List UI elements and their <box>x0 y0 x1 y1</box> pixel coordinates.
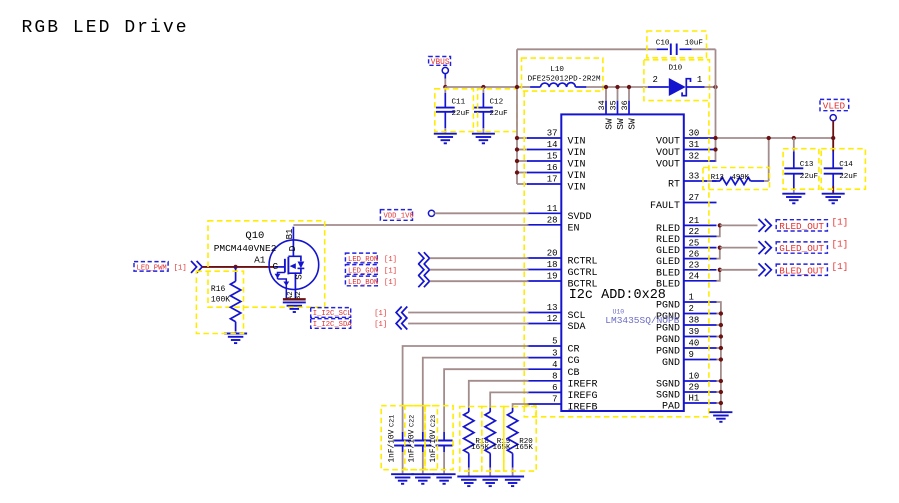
wire pin 3 to cap at x=422.8 <box>423 358 529 432</box>
yellow box C13 <box>783 149 819 190</box>
pin 34 SW (top) <box>597 85 615 130</box>
svg-text:C14: C14 <box>839 161 853 169</box>
svg-text:VOUT: VOUT <box>656 137 680 148</box>
wire VBUS drop <box>444 73 446 87</box>
capacitor C23 1nF/10V <box>430 415 453 474</box>
net label VDD_1V8 <box>380 210 434 221</box>
svg-text:VIN: VIN <box>568 160 586 171</box>
node VIN junction pin 15 <box>515 159 519 163</box>
pin 35 SW (top) <box>608 85 626 130</box>
pin 37 VIN (left) <box>527 129 586 148</box>
svg-text:C22: C22 <box>409 415 417 427</box>
yellow box R13 <box>703 168 770 190</box>
wire VIN tap pin 37 <box>517 137 529 139</box>
resistor R19 165K <box>485 408 511 477</box>
svg-text:18: 18 <box>547 260 558 270</box>
node VLED junction <box>831 136 835 140</box>
svg-text:RLED_OUT: RLED_OUT <box>779 221 824 232</box>
net label RLED_OUT <box>776 216 848 232</box>
svg-text:30: 30 <box>689 129 700 139</box>
svg-text:[1]: [1] <box>374 310 387 318</box>
pin 33 RT (right) <box>668 172 717 191</box>
wire pin 6 to resistor at x=490.2 <box>490 392 528 408</box>
node VIN rail junction <box>515 85 519 89</box>
svg-text:LED_GON: LED_GON <box>348 267 378 275</box>
pin 15 VIN (left) <box>527 152 586 171</box>
port chevron BLED_OUT <box>759 263 772 276</box>
svg-text:22uF: 22uF <box>800 173 819 181</box>
svg-text:33: 33 <box>689 172 700 182</box>
pin 5 CR (left) <box>527 337 580 356</box>
wire LED_GON to pin 18 <box>430 269 529 271</box>
pin 32 VOUT (right) <box>656 152 717 171</box>
ground for Q10 source <box>283 302 306 312</box>
svg-text:13: 13 <box>547 303 558 313</box>
svg-text:SW: SW <box>615 118 626 130</box>
svg-text:[1]: [1] <box>384 267 397 275</box>
pin 36 SW (top) <box>620 85 638 130</box>
yellow box C22 <box>405 406 438 470</box>
svg-text:4: 4 <box>552 360 557 370</box>
net label I_I2C_SDA <box>311 319 387 330</box>
wire pin32 corner <box>716 160 717 162</box>
svg-text:29: 29 <box>689 383 700 393</box>
svg-text:RCTRL: RCTRL <box>568 257 598 268</box>
wire VBUS rail to L10 <box>445 86 530 88</box>
svg-text:D10: D10 <box>669 65 683 73</box>
pin 30 VOUT (right) <box>656 129 717 148</box>
svg-text:LED_PWM: LED_PWM <box>137 265 167 273</box>
svg-text:1nF/10V: 1nF/10V <box>388 429 396 462</box>
svg-text:31: 31 <box>689 140 700 150</box>
svg-text:3: 3 <box>552 348 557 358</box>
svg-text:G: G <box>273 261 279 272</box>
svg-text:100K: 100K <box>211 295 230 304</box>
svg-text:SVDD: SVDD <box>568 212 592 223</box>
resistor R18 165K <box>464 408 490 477</box>
port chevron I_I2C_SCL <box>396 307 407 319</box>
pin 19 BCTRL (left) <box>527 272 598 291</box>
pin 7 IREFB (left) <box>527 395 598 414</box>
svg-text:32: 32 <box>689 152 700 162</box>
wire D10 cathode to node <box>705 86 716 88</box>
svg-text:14: 14 <box>547 140 558 150</box>
svg-text:SW: SW <box>603 118 614 130</box>
svg-text:GLED: GLED <box>656 246 680 257</box>
wire LED_PWM to gate <box>202 266 274 268</box>
pin 6 IREFG (left) <box>527 383 598 402</box>
svg-text:I_I2C_SCL: I_I2C_SCL <box>313 310 352 318</box>
pin 12 SDA (left) <box>527 314 586 333</box>
pin 3 CG (left) <box>527 348 580 367</box>
wire VOUT rail <box>714 137 833 139</box>
diode D10 <box>648 65 705 96</box>
svg-text:36: 36 <box>620 100 630 110</box>
yellow box C12 <box>478 89 517 132</box>
pin 39 PGND (right) <box>656 327 717 346</box>
svg-text:40: 40 <box>689 339 700 349</box>
ground for R18 <box>457 477 480 487</box>
svg-text:RLED: RLED <box>656 235 680 246</box>
pin 27 FAULT (right) <box>650 193 717 212</box>
svg-text:SGND: SGND <box>656 380 680 391</box>
svg-text:DFE252012PD-2R2M: DFE252012PD-2R2M <box>528 75 601 83</box>
ground for R19 <box>479 477 502 487</box>
node R16 tap <box>233 265 237 269</box>
svg-text:1: 1 <box>689 293 694 303</box>
svg-text:37: 37 <box>547 129 558 139</box>
pin 23 BLED (right) <box>656 261 717 280</box>
net label BLED_OUT <box>776 261 848 277</box>
svg-text:C12: C12 <box>490 99 504 107</box>
wire VIN tap pin 16 <box>517 172 529 174</box>
pin 11 SVDD (left) <box>527 204 592 223</box>
svg-text:2: 2 <box>689 304 694 314</box>
yellow box C23 <box>425 406 453 470</box>
svg-text:GLED: GLED <box>656 257 680 268</box>
pin 20 RCTRL (left) <box>527 249 598 268</box>
yellow box L10 <box>522 58 603 91</box>
svg-text:VIN: VIN <box>568 137 586 148</box>
yellow box C21 <box>381 406 425 470</box>
pin 29 SGND (right) <box>656 383 717 402</box>
net label VLED <box>820 99 849 120</box>
wire SW rail <box>586 86 648 88</box>
wire VLED drop <box>832 121 834 139</box>
svg-text:GCTRL: GCTRL <box>568 268 598 279</box>
svg-text:I2c ADD:0x28: I2c ADD:0x28 <box>569 288 666 303</box>
svg-text:CG: CG <box>568 356 580 367</box>
svg-text:SW: SW <box>626 118 637 130</box>
wire Q10 source bar <box>283 298 306 300</box>
svg-text:GLED_OUT: GLED_OUT <box>779 243 824 254</box>
svg-text:FAULT: FAULT <box>650 201 680 212</box>
pin 22 RLED (right) <box>656 227 717 246</box>
pin 31 VOUT (right) <box>656 140 717 159</box>
wire R13 riser to VOUT rail <box>764 136 771 181</box>
svg-text:A1: A1 <box>254 255 266 266</box>
yellow box U10 <box>524 92 709 417</box>
svg-text:Q10: Q10 <box>245 230 264 242</box>
svg-text:IREFR: IREFR <box>568 379 598 390</box>
wire RLED_OUT pair merge <box>717 223 758 236</box>
pin 38 PGND (right) <box>656 316 717 335</box>
ground for C21 <box>391 474 414 484</box>
pin H1 PAD (right) <box>662 394 717 413</box>
yellow box R19 <box>482 407 504 472</box>
svg-text:9: 9 <box>689 350 694 360</box>
svg-text:VIN: VIN <box>568 171 586 182</box>
svg-text:VBUS: VBUS <box>431 59 450 67</box>
wire C10 to output node <box>692 48 716 50</box>
text I2c address <box>569 288 666 303</box>
op-amp U10 LM3435SQ body <box>561 114 684 411</box>
svg-text:BLED_OUT: BLED_OUT <box>779 265 824 276</box>
capacitor C14 22uF <box>824 138 858 194</box>
pin 10 SGND (right) <box>656 372 717 391</box>
node VIN junction pin 14 <box>515 147 519 151</box>
svg-text:EN: EN <box>568 223 580 234</box>
svg-text:PGND: PGND <box>656 335 680 346</box>
svg-text:LED_RON: LED_RON <box>348 256 378 264</box>
svg-text:7: 7 <box>552 395 557 405</box>
port chevron I_I2C_SDA <box>396 318 407 330</box>
resistor R13 499K <box>707 174 764 185</box>
svg-text:RT: RT <box>668 180 680 191</box>
svg-text:C21: C21 <box>388 415 396 427</box>
svg-text:38: 38 <box>689 316 700 326</box>
resistor R16 <box>211 267 241 334</box>
svg-text:1nF/10V: 1nF/10V <box>409 429 417 462</box>
svg-text:RLED: RLED <box>656 224 680 235</box>
svg-text:H1: H1 <box>689 394 700 404</box>
wire GLED_OUT pair merge <box>717 245 758 258</box>
capacitor C11 <box>436 87 470 134</box>
svg-text:12: 12 <box>547 314 558 324</box>
svg-text:C10: C10 <box>656 39 670 47</box>
net label GLED_OUT <box>776 239 848 255</box>
svg-text:VOUT: VOUT <box>656 160 680 171</box>
pin 14 VIN (left) <box>527 140 586 159</box>
wire pin 5 to cap at x=402.6 <box>403 346 529 432</box>
ground for C23 <box>433 474 456 484</box>
svg-text:27: 27 <box>689 193 700 203</box>
wire I_I2C_SCL <box>408 312 528 314</box>
svg-text:22uF: 22uF <box>490 110 509 118</box>
svg-text:21: 21 <box>689 216 700 226</box>
svg-text:1: 1 <box>697 75 702 85</box>
node VIN junction pin 16 <box>515 170 519 174</box>
net label LED_BON <box>345 276 397 287</box>
svg-text:IREFB: IREFB <box>568 403 598 414</box>
pin 17 VIN (left) <box>527 175 586 194</box>
port chevron RLED_OUT <box>759 219 772 232</box>
net label LED_GON <box>345 265 397 276</box>
svg-text:SCL: SCL <box>568 311 586 322</box>
resistor R20 165K <box>507 408 533 477</box>
pin 26 GLED (right) <box>656 249 717 268</box>
yellow box C10 <box>647 31 707 58</box>
svg-text:34: 34 <box>597 100 607 110</box>
svg-text:28: 28 <box>547 216 558 226</box>
ground for C22 <box>411 474 434 484</box>
svg-text:C13: C13 <box>800 161 814 169</box>
pin 9 GND (right) <box>662 350 717 369</box>
node output corner <box>713 85 717 89</box>
wire BLED_OUT pair merge <box>717 268 758 281</box>
yellow box R20 <box>504 407 536 472</box>
svg-text:24: 24 <box>689 272 700 282</box>
wire I_I2C_SDA <box>408 323 528 325</box>
ground for C12 <box>472 134 495 144</box>
wire Q10 drain to EN <box>293 224 528 226</box>
svg-text:VIN: VIN <box>568 148 586 159</box>
node VBUS-C11 junction <box>443 85 447 89</box>
wire pin 8 to resistor at x=468.8 <box>469 381 529 408</box>
pin 4 CB (left) <box>527 360 580 379</box>
wire LED_RON to pin 20 <box>430 257 529 259</box>
yellow box C14 <box>821 149 865 190</box>
capacitor C10 <box>656 39 704 55</box>
svg-text:GND: GND <box>662 358 680 369</box>
svg-text:165K: 165K <box>515 444 534 452</box>
capacitor C12 <box>474 85 508 134</box>
port chevron LED_PWM <box>191 261 202 273</box>
svg-text:15: 15 <box>547 152 558 162</box>
svg-text:D: D <box>287 245 298 251</box>
pin 1 PGND (right) <box>656 293 717 312</box>
svg-text:BLED: BLED <box>656 268 680 279</box>
port chevron LED_BON <box>418 275 429 287</box>
wire VIN tap pin 14 <box>517 149 529 151</box>
node VIN junction pin 37 <box>515 136 519 140</box>
pin 40 PGND (right) <box>656 339 717 358</box>
svg-text:[1]: [1] <box>832 216 849 227</box>
svg-text:[1]: [1] <box>174 265 187 273</box>
svg-text:R13: R13 <box>711 174 724 182</box>
ground for PGND bus <box>709 412 732 422</box>
yellow box C11 <box>435 89 474 132</box>
port chevron GLED_OUT <box>759 241 772 254</box>
wire VDD_1V8 to SVDD <box>434 212 528 214</box>
svg-text:10uF: 10uF <box>685 39 704 47</box>
capacitor C22 1nF/10V <box>409 415 432 474</box>
svg-text:10: 10 <box>689 372 700 382</box>
yellow box D10 <box>644 60 710 101</box>
svg-text:2: 2 <box>653 75 658 85</box>
wire pin 4 to cap at x=444.1 <box>444 369 528 432</box>
text U10 refdes <box>613 308 625 315</box>
svg-text:B1: B1 <box>285 229 295 240</box>
svg-text:22uF: 22uF <box>839 173 858 181</box>
svg-text:VDD_1V8: VDD_1V8 <box>384 213 414 221</box>
svg-text:CR: CR <box>568 345 580 356</box>
port chevron LED_GON <box>418 264 429 276</box>
wire PGND bus vertical <box>717 302 724 412</box>
svg-text:[1]: [1] <box>832 261 849 272</box>
svg-text:C11: C11 <box>452 99 466 107</box>
node VOUT junction pin30 <box>713 136 717 140</box>
svg-text:VOUT: VOUT <box>656 148 680 159</box>
svg-text:35: 35 <box>608 100 618 110</box>
yellow box Q10 <box>208 221 325 307</box>
wire input top branch vertical <box>516 49 518 87</box>
svg-text:26: 26 <box>689 249 700 259</box>
svg-text:22uF: 22uF <box>452 110 471 118</box>
svg-text:SGND: SGND <box>656 391 680 402</box>
pin 21 RLED (right) <box>656 216 717 235</box>
wire pin 7 to resistor at x=512.6 <box>513 404 529 408</box>
yellow box R16 <box>196 271 243 333</box>
net label LED_PWM <box>134 262 187 273</box>
svg-text:VLED: VLED <box>823 100 846 111</box>
capacitor C21 1nF/10V <box>388 415 411 474</box>
svg-text:[1]: [1] <box>832 239 849 250</box>
svg-text:[1]: [1] <box>384 256 397 264</box>
svg-text:39: 39 <box>689 327 700 337</box>
ground for R16 <box>224 334 247 344</box>
pin 28 EN (left) <box>527 216 580 235</box>
inductor L10 <box>528 66 601 87</box>
svg-text:SDA: SDA <box>568 322 586 333</box>
ground for C14 <box>822 194 845 204</box>
svg-text:17: 17 <box>547 175 558 185</box>
svg-text:19: 19 <box>547 272 558 282</box>
svg-text:IREFG: IREFG <box>568 391 598 402</box>
ground for C11 <box>434 134 457 144</box>
svg-text:LM3435SQ/NOPB: LM3435SQ/NOPB <box>605 315 679 326</box>
svg-text:23: 23 <box>689 261 700 271</box>
wire VIN tap pin 15 <box>517 160 529 162</box>
pin 8 IREFR (left) <box>527 372 598 391</box>
svg-text:8: 8 <box>552 372 557 382</box>
svg-text:22: 22 <box>689 227 700 237</box>
svg-text:I_I2C_SDA: I_I2C_SDA <box>313 321 353 329</box>
pin 13 SCL (left) <box>527 303 586 322</box>
svg-text:PMCM440VNE2: PMCM440VNE2 <box>214 243 277 254</box>
wire pin31 tap <box>713 147 717 151</box>
svg-text:25: 25 <box>689 238 700 248</box>
pin 24 BLED (right) <box>656 272 717 291</box>
svg-text:PAD: PAD <box>662 402 680 413</box>
pin 16 VIN (left) <box>527 163 586 182</box>
svg-text:16: 16 <box>547 163 558 173</box>
transistor Q10 PMCM440VNE2 <box>214 227 319 301</box>
text LM3435SQ/NOPB <box>605 315 679 326</box>
net label VBUS <box>429 57 451 74</box>
svg-text:LED_BON: LED_BON <box>348 279 378 287</box>
svg-text:S: S <box>294 274 305 280</box>
title text RGB LED Drive <box>22 18 189 38</box>
svg-text:499K: 499K <box>732 174 750 182</box>
svg-text:11: 11 <box>547 204 558 214</box>
svg-text:PGND: PGND <box>656 347 680 358</box>
wire VIN tap pin 17 <box>517 183 529 185</box>
svg-text:RGB LED Drive: RGB LED Drive <box>22 18 189 38</box>
pin 2 PGND (right) <box>656 304 717 323</box>
wire C10 top link <box>517 48 657 50</box>
svg-text:6: 6 <box>552 383 557 393</box>
yellow box R18 <box>460 407 482 472</box>
port chevron LED_RON <box>418 252 429 264</box>
wire output node vertical <box>715 49 717 161</box>
wire VIN bus vertical <box>516 87 518 184</box>
svg-text:[1]: [1] <box>384 279 397 287</box>
ground for R20 <box>501 477 524 487</box>
net label LED_RON <box>345 253 397 264</box>
net label I_I2C_SCL <box>311 308 387 319</box>
pin 25 GLED (right) <box>656 238 717 257</box>
ground for C13 <box>782 194 805 204</box>
svg-text:20: 20 <box>547 249 558 259</box>
svg-text:L10: L10 <box>550 66 564 74</box>
svg-text:CB: CB <box>568 368 580 379</box>
capacitor C13 22uF <box>784 136 818 194</box>
wire LED_BON to pin 19 <box>430 280 529 282</box>
pin 18 GCTRL (left) <box>527 260 598 279</box>
svg-text:5: 5 <box>552 337 557 347</box>
svg-text:VIN: VIN <box>568 183 586 194</box>
svg-text:R16: R16 <box>211 285 226 294</box>
svg-text:[1]: [1] <box>374 321 387 329</box>
